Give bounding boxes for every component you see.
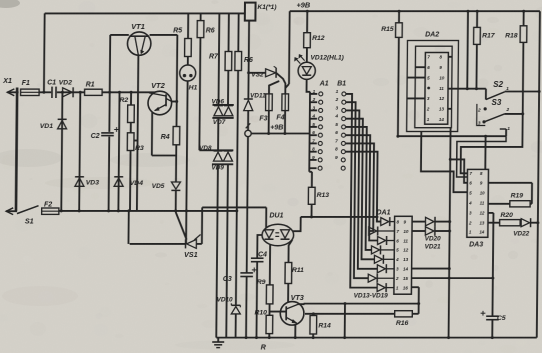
connector A1 contact 2 [310,101,317,103]
switch S3 [484,107,487,110]
resistor R6 lower column [237,13,239,51]
diode VD7 [224,105,233,107]
transistor VT2 [148,91,172,115]
resistor R19 [488,203,510,205]
diode VD18 row 7 [368,274,376,282]
wire DA2 outer frame to DA3 pin5 [421,132,468,193]
resistor R16 with wires [305,313,395,315]
connector A1 contact 3 [310,109,317,111]
wire VT1 base left [110,34,129,36]
connector A1 contact [309,167,316,169]
wire top +9V rail [290,10,540,12]
test point socket [245,130,251,136]
fuse F4 [282,94,289,111]
node junction top wire tap [42,91,45,94]
wire B1 contact 6 to bus [344,135,378,240]
resistor R12 [306,11,308,33]
wire row1 feed to DA1 [301,216,377,218]
fuse F3 [269,81,279,94]
connector A1 contact 4 [310,118,317,120]
fuse F2 [42,208,59,214]
wire right edge column [537,11,540,337]
wire ground column down [216,164,218,337]
terminal X1 arrow top [7,89,14,96]
wire DA3 pin9 loop [488,182,532,184]
wire VT2 collector to R4 column [171,101,176,103]
wire VD9 column down [226,164,228,337]
capacitor C1 [51,87,53,98]
IC DA2 inner shield box [415,46,452,128]
wire DA2 pin6 stub [415,66,425,68]
resistor R11 [285,263,292,284]
wire top-left rail [45,12,245,14]
wire R9 R10 junction to VT3 base [268,304,270,315]
wire main AC top [39,91,51,93]
resistor R20 [488,222,500,224]
wire DA1 pin16 column [418,287,420,314]
wire R3 column down to thyristor wire [127,211,129,244]
optocoupler DU1 [262,224,294,245]
diode VD19 row 8 [377,284,385,292]
wire test point down to C3 [247,137,248,273]
diode VD6 [214,105,223,107]
wire DA3 pin12 to C5 column [488,212,493,214]
rail VD6 VD7 bottom [212,117,233,119]
connector A1 contact 1 [310,93,317,95]
wire DA2 pin11 to switches [448,88,486,90]
wire +9V to R17 column [466,11,469,89]
resistor R5 column with lamp H1 [187,13,189,38]
wire B1 contact 5 to bus [344,127,372,250]
diode VD4 with wire [118,92,119,211]
wire long distribution under DA2 [398,135,506,137]
wire DA2 pin5 stub [407,77,425,79]
diode VD22 [521,219,529,227]
switch S1 [17,206,39,214]
diode VD15 row 4 [371,246,379,254]
capacitor C5 [486,315,499,317]
resistor R10 [266,315,273,333]
resistor R15 [398,11,400,23]
wire LED to connector rail [307,79,311,91]
switch S3 bracket [477,104,486,126]
wire B1 contact 4 to bus [344,119,375,260]
diode VD20 [412,221,425,223]
resistor R3 [130,123,132,133]
lamp H1 [180,65,196,81]
transistor VT3 [280,302,304,326]
wire VT2 emitter loop [151,112,153,155]
diode VD16 row 5 [374,255,382,263]
resistor R17 [476,11,478,27]
wire VD6 column from top rail [217,13,220,105]
connector A1 contact 7 [310,142,317,144]
wire DA1 pin14 to bus [412,268,450,270]
resistor R1 [85,89,103,95]
wire DU1 left lead to C4 [257,235,262,258]
diode VD11 [244,98,253,100]
resistor R2 [130,92,132,105]
wire K1 down / VD11 column [247,21,250,100]
wire distribution to DA3 top [484,136,486,169]
wire between diode pairs [217,118,219,150]
diode VD8 [214,150,223,152]
wire DA1 pin15 to C5 column [412,277,493,279]
wire VT1 collector right [150,34,178,36]
diode VD17 row 6 [377,265,385,273]
wire DA2 pin8 stub [448,56,452,58]
terminal X1 arrow bottom [6,208,13,215]
IC DA2 outer shield box [407,41,459,132]
wire DA2 bottom bus column [449,128,451,338]
diode VD2 [63,88,73,97]
wire from top rail down to main wire [43,13,46,92]
wire frame R18 node to DA3 [461,114,523,173]
wire VT1 emitter down [137,55,138,211]
diode VD3 with wire [79,92,80,211]
connector A1 contact 6 [310,134,317,136]
capacitor C3 [240,272,253,274]
IC DA3 [467,169,489,237]
wire VT3 emitter down [294,324,296,337]
connector A1 contact 5 [310,126,317,128]
ground symbol [217,338,219,342]
LED VD12 [298,62,315,79]
diode VD1 with wire [61,92,62,211]
wire inner frame to DA3 top [457,136,506,177]
diode VD13 row 1 [381,218,389,226]
wire bottom ground rail [216,337,537,339]
wire VS1 output to optocoupler [202,206,266,208]
connector B1 contact [341,166,345,170]
resistor R18 [523,11,525,26]
switch S2 [485,89,487,100]
connector A1 rail [308,92,311,172]
wire DU1 output top to R13 node [293,217,301,231]
capacitor C2 on wire [108,35,111,132]
wire DU1 output bottom to R11 [288,240,292,263]
wire collector rail to DA1 [304,303,419,305]
IC DA1 [394,216,412,294]
wire lower AC rail [59,210,237,212]
wire R3 tap to emitter column [134,140,138,142]
wire H1 down to lower rail and VS1 [186,81,188,244]
wire rail down to bottom [344,304,346,338]
relay K1 [245,3,256,21]
diode VD5 [171,182,180,189]
diode VD21 [412,230,425,232]
capacitor C4 [251,257,264,259]
rail VD8 VD9 bottom [212,163,233,165]
wire +9V distribution from test point to connector [251,133,309,135]
diode VD9 [224,150,233,152]
wire VT3 collector up [298,303,303,306]
IC DA2 [425,53,449,125]
diode VD14 row 3 [378,237,386,245]
wire B1 contact 8 to bus [345,152,382,222]
resistor R7 column [228,13,230,51]
wire B1 contact 1 to bus [344,94,379,288]
wire optocoupler input down [265,207,267,228]
resistor R6 upper column [200,13,202,20]
fuse F1 [21,89,40,95]
diode VD10 zener [231,304,240,306]
resistor R13 [309,171,312,173]
rail VD8 VD9 top [212,149,233,151]
wire VS1 output up [201,207,203,244]
wire DA2 pin3 stub [407,97,425,99]
resistor R14 [312,314,314,316]
wire B1 contact 7 to bus [345,143,374,231]
connector A1 contact 9 [309,159,316,161]
wire branch to DA3 pin6 [450,159,468,182]
rail VD6 VD7 top [212,104,233,106]
diode VD13 row 2 [369,227,377,235]
wire B1 contact 2 to bus [344,102,370,278]
wire VD5 to VS1 gate diagonal [175,212,186,240]
wire DU1 cathode down to R9 [269,245,271,285]
DA2 pin row 4 [427,87,430,90]
resistor R4 column [175,35,178,127]
wire B1 contact 3 to bus [344,110,379,268]
wire +9V feed column to F4 [288,11,291,84]
wire DA2 pin13 stub [448,108,452,110]
connector X1 boundary line [16,88,17,212]
thyristor VS1 [130,243,186,245]
connector A1 contact 8 [309,151,316,153]
transistor VT1 [127,32,151,55]
resistor R9 [266,285,273,304]
